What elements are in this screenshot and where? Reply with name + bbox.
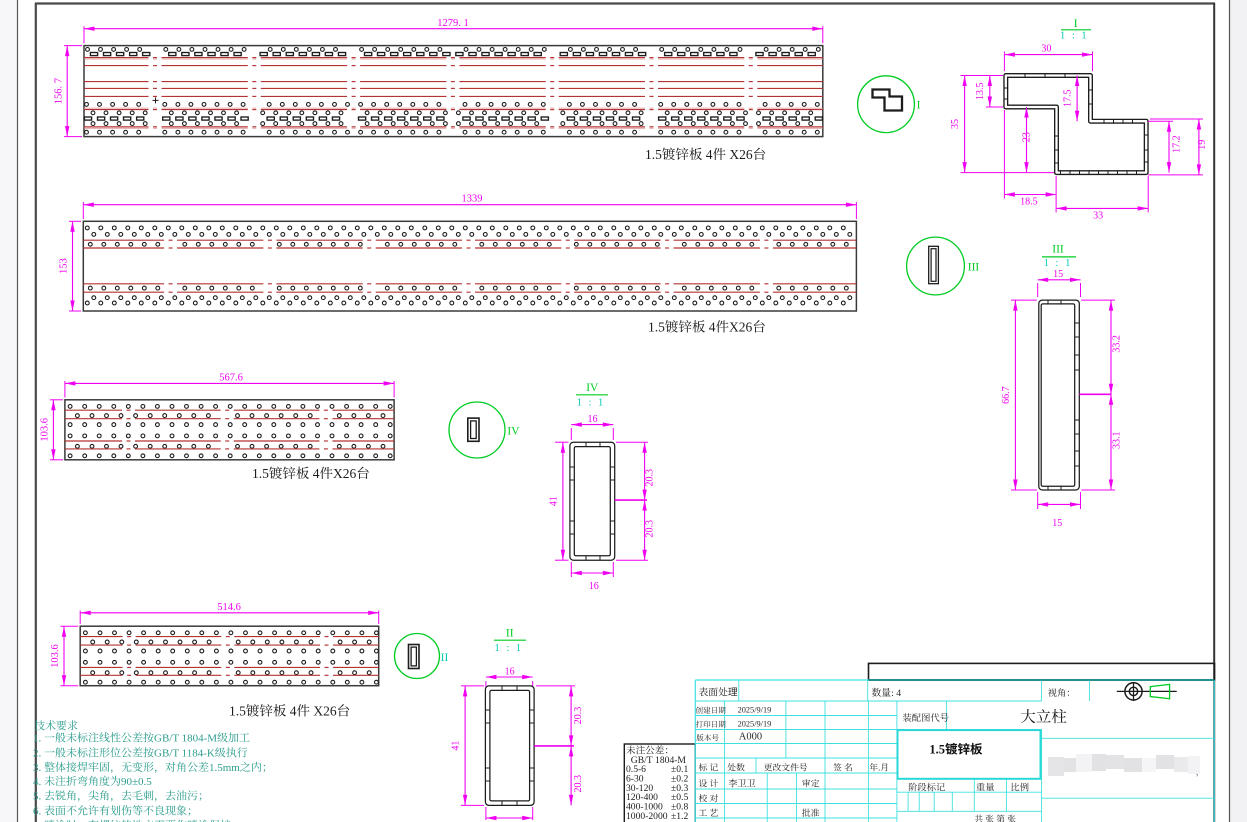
strip 1 red fold lines upper bbox=[84, 57, 823, 59]
strip 1 top row slots bbox=[90, 53, 815, 56]
svg-text:阶段标记: 阶段标记 bbox=[908, 780, 945, 794]
svg-text:创建日期: 创建日期 bbox=[696, 705, 727, 716]
section II wall ticks bbox=[485, 686, 534, 805]
dim 514.6 width of strip 4 bbox=[79, 611, 81, 625]
svg-text:35: 35 bbox=[950, 119, 961, 129]
svg-text:审定: 审定 bbox=[802, 777, 820, 790]
dim 16 top of section II bbox=[485, 681, 487, 692]
dim 17.2 section I bbox=[1148, 120, 1173, 122]
strip 3 plate outline (567.6 x 103.6) bbox=[65, 400, 394, 460]
dim 13.5 section I bbox=[986, 75, 1003, 77]
svg-text:4. 未注折弯角度为90±0.5: 4. 未注折弯角度为90±0.5 bbox=[33, 773, 152, 789]
drawing frame border bbox=[35, 2, 1215, 4]
section III profile (15 x 66.7 channel) bbox=[1039, 300, 1080, 490]
svg-text:41: 41 bbox=[549, 496, 560, 506]
svg-text:I: I bbox=[1074, 18, 1078, 30]
strip 2 hole row on upper rail bbox=[88, 242, 848, 246]
section I wall tick marks bbox=[1004, 73, 1149, 175]
svg-text:打印日期: 打印日期 bbox=[696, 719, 727, 730]
svg-text:30: 30 bbox=[1041, 44, 1051, 55]
svg-text:1 : 1: 1 : 1 bbox=[1060, 31, 1089, 42]
dim 23 section I bbox=[1026, 107, 1028, 173]
svg-text:514.6: 514.6 bbox=[217, 602, 241, 613]
strip 3 hole pattern rows bbox=[68, 405, 392, 409]
dim 153 height of strip 2 bbox=[69, 220, 81, 222]
strip 1 slot row lower bbox=[84, 117, 822, 120]
dim 103.6 height of strip 4 bbox=[61, 625, 79, 627]
svg-text:重量: 重量 bbox=[976, 780, 995, 794]
svg-text:66.7: 66.7 bbox=[1001, 386, 1012, 404]
dim 20.3 upper section II bbox=[536, 685, 575, 687]
strip 1 hole row c bbox=[91, 122, 813, 126]
svg-text:20.3: 20.3 bbox=[645, 520, 656, 538]
svg-text:III: III bbox=[968, 262, 980, 274]
section I profile (stepped channel) bbox=[1006, 76, 1146, 173]
strip 1 top row holes bbox=[86, 48, 821, 52]
svg-text:41: 41 bbox=[451, 741, 462, 751]
strip 1 hole row a bbox=[85, 103, 820, 107]
svg-text:签 名: 签 名 bbox=[833, 761, 853, 774]
svg-text:数量: 4: 数量: 4 bbox=[872, 685, 902, 699]
section IV mini profile glyph bbox=[468, 418, 479, 441]
svg-text:20.3: 20.3 bbox=[573, 707, 584, 725]
svg-text:1. 一般未标注线性公差按GB/T 1804-M级加工: 1. 一般未标注线性公差按GB/T 1804-M级加工 bbox=[33, 730, 250, 746]
section III wall ticks bbox=[1048, 300, 1079, 490]
svg-text:1339: 1339 bbox=[462, 194, 483, 205]
svg-text:1279. 1: 1279. 1 bbox=[437, 18, 469, 29]
dim 17.5 section I bbox=[1076, 76, 1078, 122]
section IV wall ticks bbox=[570, 442, 615, 560]
svg-text:156. 7: 156. 7 bbox=[54, 78, 65, 104]
strip 2 red rail upper bbox=[83, 239, 856, 241]
divider between 20.3 dims section IV bbox=[615, 499, 647, 501]
dim 16 top of section IV bbox=[570, 428, 572, 440]
svg-text:IV: IV bbox=[586, 382, 599, 394]
svg-text:7. 喷涂时，有螺纹的地方需要作喷涂保护；: 7. 喷涂时，有螺纹的地方需要作喷涂保护； bbox=[33, 817, 242, 822]
svg-text:II: II bbox=[441, 652, 449, 664]
view angle cone symbol bbox=[1150, 684, 1169, 699]
dim 35 section I bbox=[961, 75, 1003, 77]
dim 33 section I bbox=[1147, 176, 1149, 212]
section callout circle III bbox=[907, 237, 965, 295]
dim 19 section I bbox=[1148, 174, 1203, 176]
svg-text:比例: 比例 bbox=[1010, 780, 1029, 794]
dim 567.6 width of strip 3 bbox=[64, 381, 66, 398]
dim 156.7 height of strip 1 bbox=[64, 45, 82, 47]
svg-text:年.月: 年.月 bbox=[869, 761, 889, 774]
strip 2 hole row bottom b bbox=[85, 301, 845, 305]
svg-text:±1.2: ±1.2 bbox=[671, 811, 688, 822]
svg-text:33: 33 bbox=[1093, 211, 1103, 222]
svg-text:1000-2000: 1000-2000 bbox=[626, 808, 668, 822]
svg-text:处数: 处数 bbox=[727, 761, 745, 774]
dim 20.3 lower section II bbox=[570, 746, 572, 806]
dim 15 top of section III bbox=[1037, 283, 1039, 297]
strip 4 plate outline (514.6 x 103.6) bbox=[80, 626, 379, 686]
svg-text:1 : 1: 1 : 1 bbox=[494, 643, 523, 654]
dim 41 section IV bbox=[555, 441, 569, 443]
svg-text:装配图代号: 装配图代号 bbox=[903, 710, 950, 724]
svg-text:13.5: 13.5 bbox=[975, 82, 986, 100]
dim 1339 width of strip 2 bbox=[82, 202, 84, 219]
svg-text:567.6: 567.6 bbox=[219, 372, 243, 383]
section II profile (16 x 41 tube) bbox=[485, 686, 534, 806]
svg-text:103.6: 103.6 bbox=[50, 644, 61, 668]
svg-text:批准: 批准 bbox=[802, 806, 820, 819]
section callout circle I bbox=[858, 76, 915, 133]
svg-text:IV: IV bbox=[507, 425, 520, 437]
svg-text:校 对: 校 对 bbox=[699, 792, 719, 805]
svg-text:16: 16 bbox=[505, 667, 515, 678]
dim 33.1 section III bbox=[1081, 489, 1115, 491]
svg-text:A000: A000 bbox=[739, 732, 762, 743]
svg-text:23: 23 bbox=[1022, 132, 1033, 142]
svg-text:15: 15 bbox=[1053, 269, 1063, 280]
dark teal header box bottom edge bbox=[869, 679, 1215, 681]
dim 103.6 height of strip 3 bbox=[50, 399, 63, 401]
svg-text:5. 去锐角，尖角，去毛刺，去油污；: 5. 去锐角，尖角，去毛刺，去油污； bbox=[33, 788, 209, 804]
svg-text:共 张 第 张: 共 张 第 张 bbox=[974, 812, 1016, 822]
strip 2 red rail lower bbox=[83, 283, 856, 285]
svg-text:20.3: 20.3 bbox=[573, 775, 584, 793]
svg-text:视角：: 视角： bbox=[1048, 685, 1076, 699]
svg-text:2025/9/19: 2025/9/19 bbox=[738, 705, 772, 714]
dim 20.3 lower section IV bbox=[616, 559, 648, 561]
strip 1 hole row b bbox=[91, 111, 813, 115]
strip 1 plate outline (1279.1 x 156.7) bbox=[84, 46, 823, 137]
svg-text:18.5: 18.5 bbox=[1020, 197, 1038, 208]
section callout circle II bbox=[395, 634, 440, 679]
svg-text:II: II bbox=[506, 628, 514, 640]
section callout circle IV bbox=[449, 402, 505, 458]
svg-text:,: , bbox=[1196, 767, 1198, 777]
svg-text:6. 表面不允许有划伤等不良现象；: 6. 表面不允许有划伤等不良现象； bbox=[33, 802, 198, 818]
svg-text:李卫卫: 李卫卫 bbox=[728, 776, 756, 790]
dim 20.3 upper section IV bbox=[616, 441, 648, 443]
section III mini profile glyph bbox=[929, 246, 939, 283]
svg-text:I: I bbox=[917, 100, 921, 112]
svg-text:更改文件号: 更改文件号 bbox=[764, 761, 808, 774]
svg-text:153: 153 bbox=[59, 258, 70, 274]
strip 4 hole pattern rows bbox=[84, 631, 379, 635]
part name box border bbox=[898, 730, 1041, 779]
strip 2 plate outline (1339 x 153) bbox=[83, 221, 856, 311]
dim 15 bottom of section III bbox=[1037, 492, 1039, 509]
svg-text:表面处理: 表面处理 bbox=[699, 685, 738, 699]
strip 1 red fold line lower bbox=[84, 126, 823, 128]
svg-text:III: III bbox=[1052, 244, 1064, 256]
dim 16 bottom of section II partial bbox=[485, 807, 487, 820]
view angle projection symbol bbox=[1125, 683, 1142, 700]
dim 1279.1 width of strip 1 bbox=[83, 26, 85, 43]
strip 2 hole row top a bbox=[85, 226, 845, 230]
svg-text:33.1: 33.1 bbox=[1112, 431, 1123, 449]
svg-text:15: 15 bbox=[1052, 518, 1062, 529]
divider line between 33.2 and 33.1 bbox=[1079, 393, 1111, 395]
svg-text:2025/9/19: 2025/9/19 bbox=[738, 719, 772, 728]
strip 1 hole row d bbox=[85, 130, 820, 134]
svg-text:标 记: 标 记 bbox=[699, 761, 719, 774]
svg-text:16: 16 bbox=[589, 581, 599, 592]
title block black header box bbox=[869, 663, 1215, 680]
strip 1 centre mark cross bbox=[153, 97, 159, 103]
svg-text:103.6: 103.6 bbox=[39, 418, 50, 442]
divider between 20.3 dims section II bbox=[534, 745, 574, 747]
dim 16 bottom of section IV bbox=[570, 562, 572, 577]
svg-text:2. 一般未标注形位公差按GB/T 1184-K级执行: 2. 一般未标注形位公差按GB/T 1184-K级执行 bbox=[33, 744, 248, 760]
strip 2 hole row top b bbox=[92, 233, 852, 237]
strip 2 hole row on lower rail bbox=[88, 286, 848, 290]
svg-text:1 : 1: 1 : 1 bbox=[1044, 258, 1073, 269]
svg-text:33.2: 33.2 bbox=[1112, 335, 1123, 353]
svg-text:16: 16 bbox=[588, 414, 598, 425]
svg-text:19: 19 bbox=[1197, 140, 1208, 150]
section II mini profile glyph bbox=[409, 645, 420, 669]
redacted company name mosaic bbox=[1048, 754, 1200, 776]
svg-text:设 计: 设 计 bbox=[699, 777, 719, 790]
svg-text:20.3: 20.3 bbox=[645, 469, 656, 487]
svg-text:17.5: 17.5 bbox=[1063, 90, 1074, 108]
svg-text:工 艺: 工 艺 bbox=[699, 806, 719, 819]
strip 2 hole row bottom a bbox=[92, 296, 852, 300]
section I mini step profile glyph bbox=[873, 90, 903, 111]
right sheet margin band bbox=[1230, 0, 1247, 822]
svg-text:大立柱: 大立柱 bbox=[1020, 705, 1067, 727]
dim 66.7 section III bbox=[1011, 299, 1037, 301]
dim 18.5 section I bbox=[1003, 110, 1005, 199]
dim 33.2 section III bbox=[1081, 299, 1115, 301]
svg-text:1 : 1: 1 : 1 bbox=[577, 397, 606, 408]
section IV profile (16 x 41 tube) bbox=[570, 442, 615, 560]
left sheet margin band bbox=[0, 0, 17, 822]
svg-text:17.2: 17.2 bbox=[1172, 135, 1183, 153]
title block cyan grid horizontal lines bbox=[695, 680, 1214, 822]
dim 30 top width of section I bbox=[1003, 52, 1005, 72]
svg-text:版本号: 版本号 bbox=[696, 733, 719, 744]
strip 1 red fold line mid bbox=[84, 107, 823, 109]
dim 41 section II bbox=[461, 685, 484, 687]
tolerance table box bbox=[624, 744, 695, 822]
